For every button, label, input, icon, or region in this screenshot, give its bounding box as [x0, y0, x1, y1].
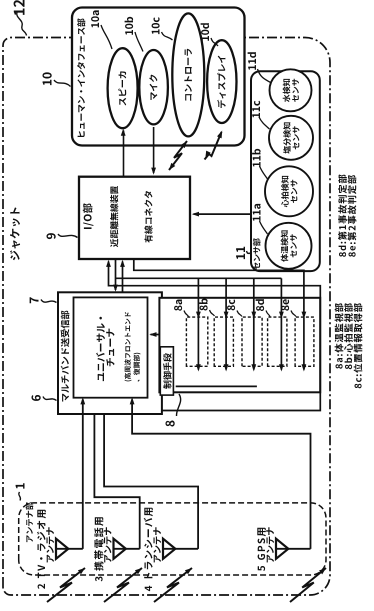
jacket label text — [10, 207, 20, 260]
radio wave bolt at antenna 4 — [154, 568, 192, 602]
dashed box 8e — [295, 317, 314, 366]
label 8a — [174, 300, 182, 311]
sensor box 11 — [251, 71, 320, 271]
control box 8 — [159, 298, 320, 393]
wire into 8b — [225, 278, 227, 316]
label 10a — [91, 10, 99, 27]
wire into 8c — [253, 278, 255, 316]
display text — [217, 56, 226, 108]
antenna 4 label — [144, 508, 153, 591]
sensor circle 11a — [266, 223, 312, 269]
label 1 — [16, 483, 25, 488]
wire antenna4 to box6 — [163, 548, 198, 550]
label 10d — [201, 23, 210, 41]
display ellipse 10d — [207, 40, 236, 123]
radio wave bolt at antenna 3 — [104, 568, 142, 602]
sensor circle 11d — [270, 69, 312, 111]
multiband text — [61, 311, 70, 402]
feeder bus from tx line down to 8a-8d — [116, 277, 282, 279]
controller ellipse 10c — [172, 13, 204, 136]
sensor box label text — [253, 238, 261, 269]
I/O box texts — [83, 203, 94, 229]
sensor circle 11b — [265, 166, 313, 216]
antenna 5 GPS — [276, 539, 288, 559]
wireless link box9-display — [205, 132, 222, 160]
label 8b — [199, 299, 208, 311]
wire I/O to speaker — [123, 131, 125, 177]
label 11c — [252, 101, 260, 118]
mic ellipse 10b — [139, 50, 168, 124]
speaker ellipse 10a — [108, 48, 138, 128]
internal bus in box 8 — [176, 385, 257, 387]
wire antenna3 to box6 — [114, 548, 140, 550]
controller text — [184, 49, 192, 101]
label 8d — [256, 299, 265, 311]
dashed box 8a — [186, 317, 207, 366]
label 8c — [227, 299, 235, 310]
radio wave bolt at antenna 5 — [290, 568, 326, 602]
mic text — [149, 75, 157, 100]
dashed box 8c — [242, 317, 262, 366]
wire antenna2 to tuner — [56, 548, 83, 550]
wire box9 to box6 (tx) — [115, 259, 117, 290]
wire box7 to box9 upper (W2 return into box9) — [109, 262, 321, 411]
dashed box 8b — [214, 317, 233, 366]
label 11a — [253, 204, 261, 221]
label 7 — [30, 297, 39, 303]
arrow box8 to tuner — [151, 334, 160, 336]
label 10c — [152, 17, 160, 34]
wire box6 to box9 (rx) — [122, 262, 124, 293]
label 10 — [43, 72, 52, 85]
sensor circle texts — [281, 230, 289, 261]
label 11 — [236, 247, 245, 259]
legend 8d-8e — [338, 175, 347, 257]
multiband transceiver box 6 — [58, 292, 162, 414]
radio wave bolt at antenna 2 — [47, 568, 85, 602]
wire box9 to 8e (W1) — [134, 259, 304, 317]
legend 8a-8c — [335, 303, 344, 368]
antenna 2 label — [37, 510, 46, 589]
antenna 3 label — [94, 517, 103, 581]
universal tuner box 7 — [74, 297, 148, 397]
wire sensors to I/O — [194, 213, 252, 215]
control means text — [163, 353, 172, 389]
antenna section box 1 (dashed) — [19, 503, 326, 575]
sensor circle 11c — [269, 116, 313, 160]
label 8e — [281, 299, 289, 310]
human interface box 10 — [72, 8, 245, 146]
wire mic to I/O — [153, 127, 155, 173]
wire into 8d — [280, 278, 282, 316]
label 8 — [166, 421, 175, 427]
wire into 8a — [197, 278, 199, 316]
label 12 — [14, 0, 25, 15]
label 10b — [125, 17, 134, 35]
label 9 — [47, 233, 56, 239]
antenna section text — [26, 502, 34, 542]
label 6 — [32, 395, 41, 401]
antenna 5 label — [257, 528, 266, 571]
antenna 3 mobile phone — [114, 539, 126, 559]
speaker text — [118, 71, 126, 105]
jacket boundary 12 (dash-dot) — [3, 38, 330, 596]
antenna 4 transceiver — [163, 539, 175, 559]
human interface header — [77, 18, 85, 137]
dashed box 8d — [268, 317, 287, 366]
label 11d — [248, 52, 257, 70]
control means box — [160, 347, 173, 395]
label 11b — [252, 149, 261, 167]
antenna 2 TV/radio — [56, 539, 68, 559]
I/O box 9 — [79, 177, 190, 259]
wire antenna5 GPS to tuner — [276, 548, 311, 550]
tuner texts — [96, 317, 105, 381]
wireless link box9-controller — [169, 141, 187, 170]
